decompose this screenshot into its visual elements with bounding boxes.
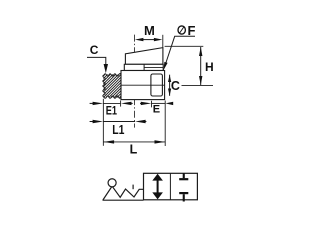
svg-text:E: E [153,104,160,116]
svg-text:F: F [188,23,196,38]
zigzag thread profile [103,186,144,200]
band (knurled ring under knob) [124,64,163,70]
svg-text:C: C [171,79,180,93]
sealant dot circle [108,179,116,187]
band divider [143,64,145,70]
icon: valve function box [144,173,198,200]
leader for C [87,57,106,64]
socket rect [151,74,163,96]
body (hex) [121,71,165,100]
dimension C (socket) [169,75,171,96]
plugged port symbols (cell 2) [179,173,188,201]
tick [132,185,134,190]
body mid line [121,84,165,86]
leader for ØF [165,36,195,64]
thread hatch [103,74,121,97]
svg-text:M: M [144,23,155,38]
svg-text:C: C [90,43,99,57]
svg-text:L: L [130,142,138,156]
svg-text:E1: E1 [106,105,118,117]
dimension H [165,45,204,47]
label ØF [178,26,185,34]
thread (wavy outline, hatched) [103,74,121,99]
icon: thread with sealant (zigzag + circle) [103,179,144,200]
dimension L [103,141,165,143]
band mid line [144,66,163,68]
dimension E [151,101,153,108]
centerline vertical axis [134,35,136,128]
baseline [103,199,144,201]
svg-text:H: H [205,60,214,74]
double flow arrow (cell 1) [152,174,163,200]
knob (knurled cap, trapezoid) [125,48,162,65]
svg-text:L1: L1 [112,123,124,137]
dimension L1 [103,121,135,123]
dimension E1 [102,99,104,146]
